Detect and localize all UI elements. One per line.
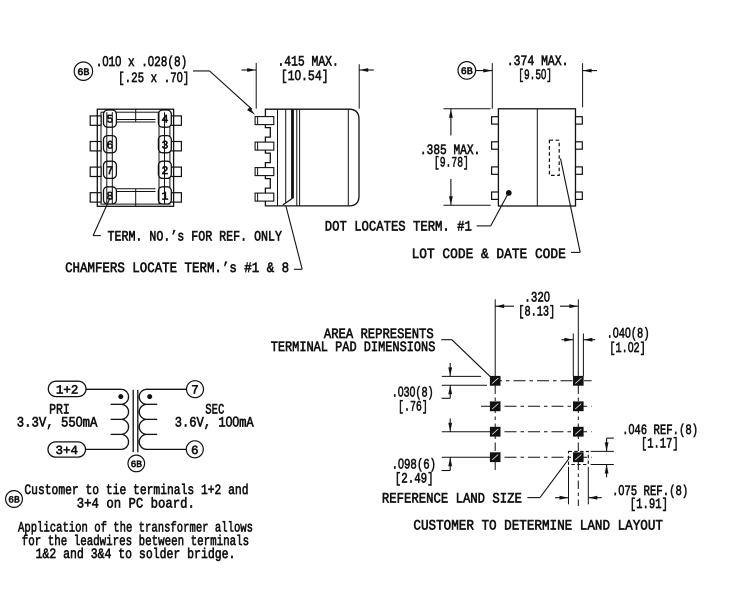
leader reference land (527, 497, 540, 499)
top view lead stubs right (170, 116, 181, 125)
svg-text:6B: 6B (131, 459, 143, 470)
land pattern column centerline left (494, 299, 496, 376)
svg-text:.010 x .028(8): .010 x .028(8) (96, 54, 188, 71)
svg-text:3+4: 3+4 (55, 444, 78, 458)
side view thick core line (291, 109, 294, 198)
wire pri top (86, 388, 121, 390)
svg-text:[9.50]: [9.50] (518, 67, 552, 84)
svg-text:7: 7 (107, 165, 114, 178)
terminal pad 4 (158, 110, 171, 127)
node 1+2 terminal pill (48, 381, 86, 396)
terminal pad 7 (104, 161, 117, 178)
secondary phase dot (148, 395, 152, 399)
terminal pad 8 (104, 187, 117, 204)
land pattern row centerlines (490, 380, 592, 382)
node 6 terminal circle (186, 441, 203, 458)
dimension .374 MAX (475, 70, 492, 72)
svg-text:6B: 6B (8, 495, 20, 506)
svg-text:6B: 6B (461, 67, 473, 78)
chamfer mark (283, 198, 293, 205)
svg-text:[1.02]: [1.02] (609, 340, 645, 357)
bottom view lead stubs left (492, 117, 499, 124)
svg-text:[.76]: [.76] (398, 400, 428, 416)
svg-text:3: 3 (161, 139, 168, 152)
svg-text:1&2 and 3&4 to solder bridge.: 1&2 and 3&4 to solder bridge. (36, 547, 236, 563)
flag note 6B schematic (128, 455, 145, 472)
terminal pad 2 (158, 161, 171, 178)
svg-text:1+2: 1+2 (56, 384, 79, 398)
svg-text:CHAMFERS LOCATE TERM.’s #1 & 8: CHAMFERS LOCATE TERM.’s #1 & 8 (65, 261, 289, 277)
leader arrowhead (247, 107, 255, 115)
svg-text:7: 7 (191, 384, 199, 398)
reference land dashed box (569, 451, 589, 464)
svg-text:DOT LOCATES TERM. #1: DOT LOCATES TERM. #1 (325, 220, 472, 236)
svg-text:6B: 6B (77, 68, 89, 79)
terminal pad 3 (158, 136, 171, 153)
node 3+4 terminal pill (48, 442, 86, 457)
flag note 6B bottom view (458, 62, 476, 80)
svg-text:[9.78]: [9.78] (434, 156, 469, 172)
transformer T1 secondary winding (139, 389, 146, 449)
dimension .075 REF land width (568, 467, 570, 505)
svg-text:TERM. NO.’s FOR REF. ONLY: TERM. NO.’s FOR REF. ONLY (108, 229, 283, 245)
top view bobbin flange lines (117, 119, 156, 121)
svg-text:6: 6 (191, 444, 199, 458)
dimension .030(8) pad height (442, 375, 481, 377)
bottom view lead stubs right (576, 117, 583, 124)
svg-text:8: 8 (107, 191, 114, 204)
svg-text:2: 2 (161, 165, 168, 178)
land pattern column centerline right (577, 299, 579, 376)
leader dot locates (477, 225, 491, 227)
wire sec bottom (147, 448, 187, 450)
dimension .415 MAX (255, 63, 257, 109)
dimension .040(8) pad width (572, 334, 574, 377)
transformer T1 primary winding (121, 389, 128, 449)
svg-text:1: 1 (161, 191, 168, 204)
svg-text:3.3V, 550mA: 3.3V, 550mA (17, 415, 98, 432)
svg-text:REFERENCE LAND SIZE: REFERENCE LAND SIZE (382, 491, 522, 507)
terminal pads (land pattern) (490, 376, 500, 385)
node 7 terminal circle (187, 381, 204, 398)
flag note 6B top left (74, 62, 92, 80)
lot code marking area (dashed) (549, 140, 559, 175)
transformer core (132, 390, 134, 452)
leader to TERM NO note (93, 198, 110, 236)
leader terminal size (193, 70, 210, 72)
dimension .098(6) pad pitch (449, 419, 451, 432)
terminal pad 5 (104, 110, 117, 127)
svg-text:[10.54]: [10.54] (281, 68, 329, 85)
leader area represents (441, 339, 452, 341)
terminal pad 1 (158, 187, 171, 204)
dimension .385 MAX (444, 108, 491, 110)
svg-text:CUSTOMER TO DETERMINE LAND LAY: CUSTOMER TO DETERMINE LAND LAYOUT (413, 518, 663, 534)
top view package outline (97, 109, 173, 206)
svg-text:3+4 on PC board.: 3+4 on PC board. (77, 496, 195, 512)
flag note 6B text note (6, 491, 23, 508)
side view lead stubs (255, 117, 274, 125)
side view body outline (265, 109, 359, 206)
terminal 1 locating dot (506, 191, 511, 196)
svg-text:LOT CODE & DATE CODE: LOT CODE & DATE CODE (412, 247, 566, 263)
dimension .046 REF land height (591, 450, 614, 452)
leader lot code (561, 159, 581, 253)
svg-text:4: 4 (161, 114, 168, 127)
top view center ticks (135, 109, 137, 122)
svg-text:TERMINAL PAD DIMENSIONS: TERMINAL PAD DIMENSIONS (271, 340, 436, 356)
wire sec top (147, 388, 187, 390)
svg-text:[1.17]: [1.17] (641, 436, 679, 452)
svg-text:6: 6 (107, 139, 114, 152)
top view leadframe rails (106, 112, 108, 204)
wire pri bottom (86, 448, 122, 450)
svg-text:[1.91]: [1.91] (630, 497, 668, 513)
side view leadframe lines (277, 109, 279, 206)
svg-text:[8.13]: [8.13] (518, 305, 555, 321)
svg-text:5: 5 (107, 114, 114, 127)
svg-text:[2.49]: [2.49] (395, 472, 434, 488)
terminal pad 6 (104, 136, 117, 153)
bottom view body outline (498, 109, 575, 206)
top view lead stubs left (90, 116, 101, 125)
bottom view center line (536, 109, 538, 206)
svg-text:[.25 x .70]: [.25 x .70] (118, 70, 189, 87)
dimension .320 (495, 305, 514, 307)
svg-text:3.6V, 100mA: 3.6V, 100mA (175, 415, 254, 432)
primary phase dot (119, 395, 123, 399)
leader chamfer (294, 268, 302, 270)
